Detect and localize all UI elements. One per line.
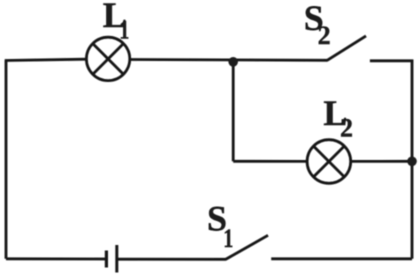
wire bottom right segment xyxy=(271,257,412,260)
wire middle branch left segment xyxy=(233,160,307,163)
label L2 xyxy=(323,93,353,142)
label S2 xyxy=(304,0,331,50)
label S1 xyxy=(207,198,233,253)
svg-text:1: 1 xyxy=(119,16,129,45)
wire middle branch right segment xyxy=(351,160,412,163)
wire bottom left segment xyxy=(6,257,106,260)
battery xyxy=(106,245,116,273)
svg-text:1: 1 xyxy=(223,225,233,254)
lamp L2 xyxy=(307,140,351,184)
wire middle branch vertical xyxy=(232,62,235,162)
label L1 xyxy=(103,0,130,45)
svg-text:2: 2 xyxy=(340,113,353,142)
svg-text:2: 2 xyxy=(318,21,331,50)
switch S2 xyxy=(327,36,366,60)
node junction top xyxy=(228,57,238,67)
wire right side xyxy=(411,61,414,259)
node junction right xyxy=(407,157,417,167)
wire top left segment xyxy=(5,59,87,60)
wire top middle segment xyxy=(130,58,328,62)
wire left side xyxy=(5,61,8,259)
wire bottom left of switch to battery xyxy=(117,258,226,261)
lamp L1 xyxy=(86,37,129,80)
wire top right segment xyxy=(370,61,412,62)
switch S1 xyxy=(226,235,268,259)
